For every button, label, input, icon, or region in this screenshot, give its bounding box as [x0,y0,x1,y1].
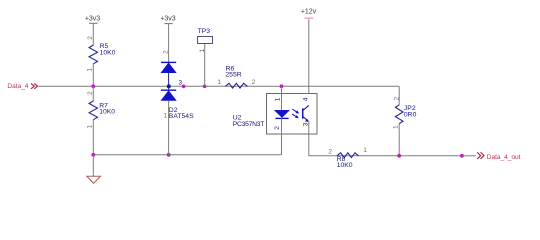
svg-text:1: 1 [217,79,221,86]
wire TP3 pin to main [204,44,206,87]
U2 phototransistor [303,105,309,121]
svg-text:1: 1 [163,113,167,120]
svg-text:2: 2 [328,149,332,156]
testpoint TP3 [198,28,213,43]
diode D2 bottom half [161,90,194,120]
svg-text:1: 1 [363,147,367,154]
U2 LED anode lead [281,94,283,111]
wire port lead [462,155,476,157]
junction dot JP2/rail [397,154,401,158]
svg-text:+3v3: +3v3 [160,16,175,23]
diode D2 top half [161,62,176,90]
svg-text:10K0: 10K0 [100,49,116,56]
power +3v3 (left) [85,16,100,24]
svg-text:2: 2 [162,50,169,54]
power +12v [301,8,317,21]
svg-text:255R: 255R [225,72,241,79]
svg-text:1: 1 [87,68,94,72]
power +3v3 (at D2) [160,16,175,24]
jumper JP2 [395,105,416,124]
wire +3v3 to R5 pin2 [92,23,94,45]
svg-text:2: 2 [87,36,94,40]
resistor R7 [89,101,115,120]
resistor R6 [225,65,247,88]
wire main to R7 pin2 [92,86,94,101]
wire D2 pin1 to rail [168,101,170,155]
wire R5 pin1 to main wire [92,64,94,87]
svg-text:TP3: TP3 [198,28,211,35]
wire R7 pin1 to ground rail [92,120,94,155]
wire +12v to U2 pin4 [308,20,310,106]
svg-text:10K0: 10K0 [337,162,353,169]
svg-text:BAT54S: BAT54S [169,113,194,120]
U2 LED [274,110,289,118]
ground [87,176,101,183]
wire output rail y=155.7 [309,155,462,157]
wire ground rail y=153 [93,154,281,156]
svg-text:0R0: 0R0 [404,112,417,119]
svg-text:Data_4_out: Data_4_out [487,154,521,161]
wire +3v3 to D2 pin2 [168,24,170,63]
wire U2 pin3 down to output rail [308,121,310,156]
svg-text:3: 3 [178,79,182,86]
port Data_4 [7,83,37,90]
junction dot rail at R7 [91,153,95,157]
junction dot output port [460,154,464,158]
svg-text:4: 4 [303,97,310,101]
junction dot (navy) D2 pin3 [167,84,171,88]
junction dot U2 pin1 [280,84,284,88]
port Data_4_out [477,152,520,161]
wire U2 pin1 stub [281,86,283,110]
wire JP2 pin1 to output rail [398,123,400,155]
junction dot R5/R7/Data_4 [91,84,95,88]
wire U2 pin2 lead down to rail corner [281,118,283,154]
svg-text:1: 1 [199,49,206,53]
opto-coupler U2 [233,94,317,135]
svg-text:1: 1 [87,125,94,129]
svg-text:+3v3: +3v3 [85,16,100,23]
svg-text:10K0: 10K0 [99,109,115,116]
wire rail to ground symbol [92,155,94,176]
svg-text:1: 1 [274,97,281,101]
wire main horizontal net Data_4 y=86 [39,85,400,87]
svg-text:2: 2 [274,126,281,130]
svg-text:Data_4: Data_4 [7,83,28,90]
svg-text:2: 2 [393,97,400,101]
svg-text:1: 1 [393,125,400,129]
svg-text:+12v: +12v [301,8,317,15]
resistor R5 [89,43,116,64]
svg-text:2: 2 [252,79,256,86]
wire jumper net from main to JP2 [398,86,400,105]
U2 light arrows [292,109,299,118]
resistor R8 [337,153,359,169]
svg-text:PC357N3T: PC357N3T [233,121,265,128]
junction dot D2 pin3 on wire [182,85,186,89]
junction dot TP3 [203,85,207,89]
junction dot rail at D2 [167,153,171,157]
